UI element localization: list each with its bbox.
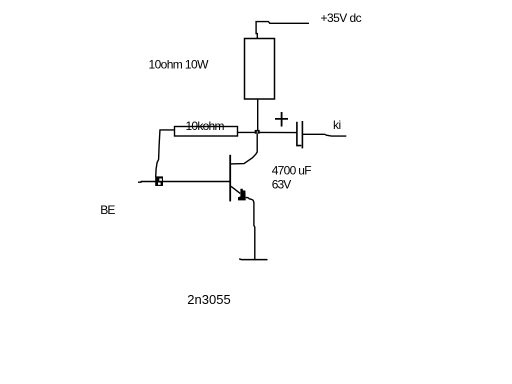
wire capacitor to ki output [303, 134, 346, 136]
plus polarity mark [275, 112, 288, 127]
svg-text:2n3055: 2n3055 [187, 292, 230, 307]
svg-text:ki: ki [333, 118, 341, 132]
wire R1 bottom to node A [257, 99, 259, 131]
capacitor C1 right plate [301, 121, 303, 148]
capacitor C1 left plate [297, 122, 301, 146]
transistor Q1 collector lead [231, 134, 257, 164]
junction blob base node [155, 176, 163, 186]
resistor R2 body [175, 127, 238, 137]
wire supply lead from R1 top to +35V dc [256, 22, 309, 39]
wire node A to capacitor [260, 131, 297, 133]
svg-text:10kohm: 10kohm [186, 119, 225, 133]
resistor R1 body [245, 39, 275, 100]
transistor Q1 emitter lead [231, 186, 240, 193]
wire R2 right lead to node A [238, 131, 256, 133]
ground [239, 258, 267, 261]
wire base [138, 181, 230, 184]
svg-text:BE: BE [100, 203, 115, 217]
transistor Q1 base bar [229, 155, 231, 202]
svg-text:4700 uF: 4700 uF [272, 163, 312, 177]
svg-text:+35V dc: +35V dc [321, 11, 362, 25]
svg-text:10ohm 10W: 10ohm 10W [149, 57, 210, 71]
svg-text:63V: 63V [272, 178, 292, 192]
wire emitter to ground [246, 198, 255, 259]
node A junction dot [255, 130, 260, 134]
wire R2 left lead down to base node [156, 130, 175, 177]
emitter arrowhead [238, 189, 246, 201]
